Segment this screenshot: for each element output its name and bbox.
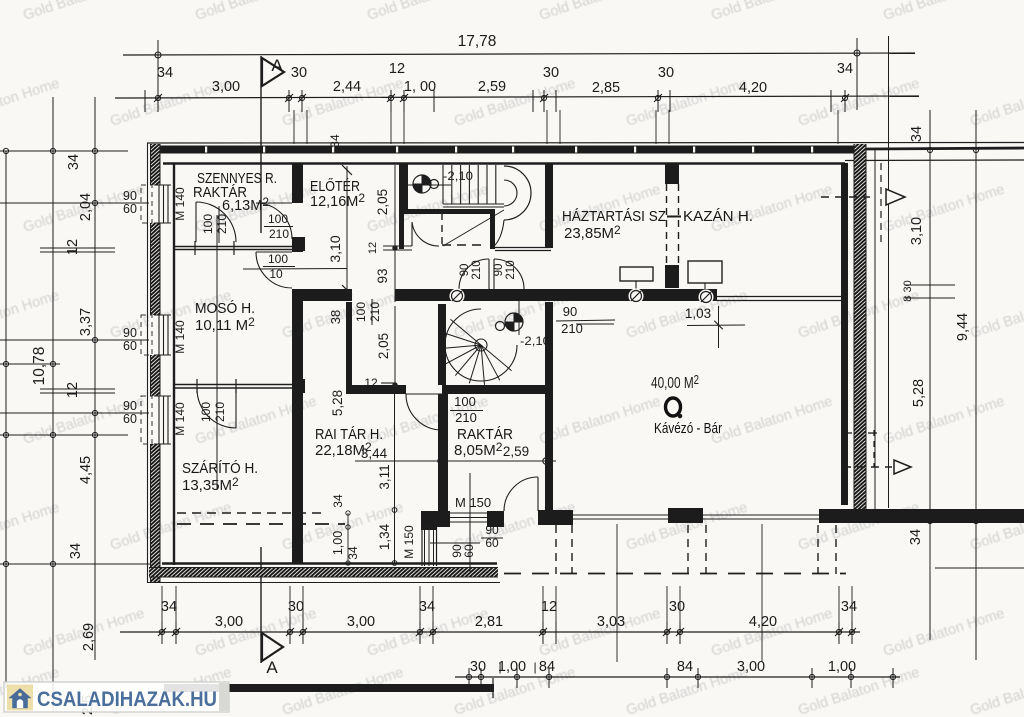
door corridor south [537,477,539,511]
svg-text:5,28: 5,28 [330,390,345,416]
svg-text:12: 12 [65,382,81,398]
svg-text:M 140: M 140 [173,320,187,354]
svg-text:A: A [266,658,278,677]
interior wall south of eloter / north of cafe [292,289,352,301]
bottom dimension line row 2 [455,676,900,678]
terrace overhang dashed [504,573,846,575]
svg-text:100: 100 [454,394,476,409]
svg-text:10: 10 [269,267,283,281]
wall south of spiral room [346,385,406,394]
svg-text:90: 90 [123,189,137,203]
svg-text:30: 30 [470,659,486,675]
upper stair break line [443,210,504,246]
interior wall under moso (light partition) [175,384,303,386]
svg-text:3,00: 3,00 [215,614,243,630]
svg-text:10,11 M2: 10,11 M2 [195,315,255,334]
svg-text:34: 34 [837,61,853,77]
interior dim 2,59/3,44 line [355,460,556,462]
svg-text:34: 34 [909,126,925,142]
left dimension column [5,151,7,688]
svg-text:1,34: 1,34 [377,523,392,550]
svg-text:ELŐTÉR: ELŐTÉR [310,178,360,195]
svg-text:12: 12 [364,376,378,390]
svg-text:RAKTÁR: RAKTÁR [457,426,513,443]
svg-text:93: 93 [375,268,390,283]
stair hall east wall [545,163,553,248]
svg-text:34: 34 [328,134,342,148]
svg-text:1,00: 1,00 [498,659,526,675]
section line A top [260,56,262,233]
svg-text:90: 90 [563,304,577,319]
svg-text:40,00 M2: 40,00 M2 [651,372,699,392]
exterior top wall [147,142,1024,145]
svg-text:210: 210 [455,410,477,425]
svg-text:MOSÓ H.: MOSÓ H. [195,300,255,317]
interior wall under szennyes (light partition) [175,246,305,248]
svg-text:12: 12 [65,239,81,255]
svg-text:3,10: 3,10 [327,235,343,262]
raktar west wall [438,394,448,511]
corridor west wall [346,302,352,389]
svg-text:8 30: 8 30 [902,280,914,301]
svg-text:1,00: 1,00 [331,531,345,555]
svg-text:12: 12 [541,599,557,615]
svg-text:3,10: 3,10 [909,217,925,245]
logo bar background [4,682,229,712]
svg-text:210: 210 [505,260,517,279]
corridor dim 2,05/93 [394,165,396,302]
svg-text:13,35M2: 13,35M2 [182,475,239,494]
svg-text:34: 34 [331,494,345,508]
svg-text:210: 210 [561,321,583,336]
thick ground bar bottom [164,684,494,692]
entry arrow top right [821,196,870,198]
vertical dim through moso rooms [216,215,218,490]
spiral staircase [445,309,517,381]
kazan double doors [488,259,490,289]
corridor south wall with window M150 [421,511,450,527]
entry arrow bottom right [843,466,892,468]
svg-text:210: 210 [269,227,289,241]
svg-text:60: 60 [462,544,476,558]
exterior left wall (hatched) [147,143,149,583]
svg-text:CSALADIHAZAK.HU: CSALADIHAZAK.HU [37,688,217,711]
svg-text:3,37: 3,37 [78,308,94,336]
eloter vertical dim 3,10 [346,166,348,294]
radiator 1 [620,267,653,281]
svg-text:6,13M2: 6,13M2 [222,195,269,214]
svg-text:90: 90 [123,326,137,340]
svg-text:M 140: M 140 [173,187,187,221]
svg-text:30: 30 [288,599,304,615]
radiator 2 [688,261,722,283]
svg-text:30: 30 [291,65,307,81]
svg-text:30: 30 [543,65,559,81]
svg-text:2,59: 2,59 [478,79,506,95]
svg-text:34: 34 [841,599,857,615]
svg-text:1,03: 1,03 [685,306,711,321]
svg-text:34: 34 [161,599,177,615]
upper staircase turn arc [504,166,531,220]
svg-text:30: 30 [658,65,674,81]
svg-text:90: 90 [123,399,137,413]
svg-text:34: 34 [66,154,82,170]
svg-text:38: 38 [328,310,343,324]
door moso-szarito [235,389,237,428]
windows M140 in left wall [149,185,171,223]
right terrace dimension lines [929,110,931,640]
corridor dim 2,05 lower / 12 [394,306,396,388]
stair marker circle upper [422,175,431,184]
svg-text:210: 210 [215,214,229,234]
svg-text:34: 34 [908,529,924,545]
svg-text:-2,10: -2,10 [443,169,473,183]
svg-text:4,20: 4,20 [749,614,777,630]
svg-text:Kávézó - Bár: Kávézó - Bár [654,421,722,437]
exterior right wall (hatched) [854,144,866,510]
svg-text:2,59: 2,59 [503,444,529,459]
interior wall szennyes/eloter vertical [292,163,303,203]
door szennyes south [195,202,197,242]
cafe O symbol [666,398,681,416]
svg-text:KAZÁN H.: KAZÁN H. [683,208,753,225]
logo house icon [7,685,33,711]
svg-text:2,05: 2,05 [376,333,391,359]
dim line x394 lower [394,394,396,563]
svg-text:3,03: 3,03 [597,614,625,630]
cafe 1,03 dim [687,324,745,327]
svg-text:210: 210 [368,302,382,322]
svg-text:90: 90 [493,264,505,277]
svg-text:100: 100 [268,252,288,266]
svg-text:8,05M2: 8,05M2 [454,440,503,459]
svg-text:23,85M2: 23,85M2 [564,223,621,242]
svg-text:3,00: 3,00 [737,659,765,675]
svg-text:5,28: 5,28 [911,379,927,407]
svg-text:SZÁRÍTÓ H.: SZÁRÍTÓ H. [182,460,258,477]
svg-text:34: 34 [68,543,84,559]
svg-text:1, 00: 1, 00 [404,79,436,95]
svg-text:10,78: 10,78 [31,347,48,386]
exterior bottom-left wall (hatched) [147,582,500,584]
svg-text:3,00: 3,00 [212,79,240,95]
svg-text:100: 100 [201,214,215,234]
svg-text:12,16M2: 12,16M2 [310,191,365,210]
top overall dimension line 17,78 [123,53,915,55]
svg-text:34: 34 [419,599,435,615]
door eloter-moso [256,252,292,288]
svg-text:90: 90 [485,523,499,537]
svg-text:3,00: 3,00 [347,614,375,630]
svg-text:34: 34 [157,65,173,81]
bottom dimension line row 1 [120,631,860,633]
spiral stair room west wall [438,304,446,385]
svg-text:9,44: 9,44 [955,313,971,341]
door szennyes-eloter [256,203,292,239]
svg-text:2,69: 2,69 [81,623,97,651]
svg-text:12: 12 [367,242,379,254]
svg-text:1,00: 1,00 [828,659,856,675]
upper staircase treads [442,165,444,204]
svg-text:2,04: 2,04 [78,193,94,221]
svg-text:3,44: 3,44 [361,446,388,461]
svg-text:A: A [271,56,283,75]
svg-text:M 150: M 150 [402,525,416,559]
door corridor-raktar [406,393,442,395]
svg-text:100: 100 [268,212,288,226]
vertical window M150 at szarito corner [421,527,423,566]
svg-text:M 150: M 150 [455,495,491,510]
szarito dashed lines [177,512,326,514]
svg-text:210: 210 [471,260,483,279]
closet under stairs [399,209,404,249]
drain symbols [450,289,465,304]
svg-text:2,85: 2,85 [592,80,620,96]
stair hall west wall [399,163,408,209]
svg-text:2,05: 2,05 [375,189,390,215]
svg-text:2,44: 2,44 [333,79,361,95]
svg-text:90: 90 [459,264,471,277]
top dimension line row 2 [115,96,919,98]
svg-text:210: 210 [213,402,227,422]
svg-text:2,81: 2,81 [475,614,503,630]
svg-text:M 140: M 140 [173,402,187,436]
svg-text:RAI TÁR H.: RAI TÁR H. [315,426,383,443]
svg-text:12: 12 [389,61,405,77]
svg-text:84: 84 [677,659,693,675]
svg-text:30: 30 [669,599,685,615]
section line A bottom [260,547,262,663]
svg-text:84: 84 [539,659,555,675]
svg-text:-2,10: -2,10 [520,334,550,348]
closet door [411,222,413,246]
svg-text:3,11: 3,11 [377,464,392,489]
svg-text:60: 60 [123,339,137,353]
closet dashed [441,213,443,247]
svg-text:17,78: 17,78 [458,33,497,50]
svg-text:100: 100 [199,402,213,422]
svg-text:60: 60 [123,412,137,426]
svg-text:|: | [533,660,536,674]
south wall of cafe section [819,509,1024,523]
kazan partition with dashed line [665,163,679,184]
stair marker circle spiral [514,313,523,322]
svg-text:60: 60 [123,202,137,216]
svg-text:4,45: 4,45 [78,456,94,484]
svg-text:100: 100 [354,302,368,322]
svg-text:4,20: 4,20 [739,80,767,96]
